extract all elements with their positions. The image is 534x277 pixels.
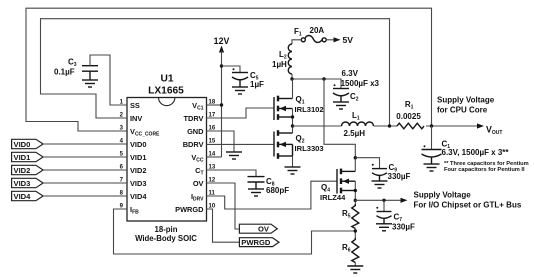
svg-text:IFB: IFB: [130, 205, 139, 216]
svg-text:330µF: 330µF: [388, 172, 411, 181]
svg-text:CT: CT: [195, 166, 203, 177]
svg-text:Wide-Body SOIC: Wide-Body SOIC: [135, 234, 197, 243]
node: R5/R6 junction to pin 9: [354, 229, 357, 232]
svg-text:680pF: 680pF: [266, 186, 289, 195]
wire: pin 14 VCC stub to 12V rail: [207, 156, 222, 158]
node: left of R1 / inner loop: [388, 124, 391, 127]
VID2 input flag: [12, 165, 43, 175]
svg-text:Q2: Q2: [296, 134, 305, 145]
svg-text:R1: R1: [405, 100, 414, 111]
capacitor C8 680pF: [248, 177, 290, 195]
node: Q1 source tie: [291, 115, 294, 118]
wire: pin 18 VC1 stub: [207, 104, 222, 106]
transistor Q2 IRL3303: [274, 130, 324, 159]
wire: Q1 drain up to node A: [292, 79, 294, 99]
svg-text:VID0: VID0: [130, 140, 146, 149]
svg-text:VID1: VID1: [14, 153, 32, 162]
svg-text:Q4: Q4: [321, 183, 330, 194]
wire: pin 9 IFB feedback from R5/R6 divider: [114, 209, 356, 254]
ground (C1): [424, 164, 440, 171]
svg-text:INV: INV: [130, 114, 142, 123]
ground (Q2 source): [285, 167, 301, 174]
svg-text:VCC: VCC: [191, 153, 204, 164]
VID3 input flag: [12, 178, 43, 188]
node: C5 tap on 12V rail: [220, 64, 223, 67]
wire: R6 to ground: [354, 263, 356, 267]
svg-text:6.3V: 6.3V: [342, 69, 359, 78]
svg-text:for CPU Core: for CPU Core: [437, 106, 488, 115]
transistor Q4 IRLZ44: [320, 169, 355, 202]
wire: pin 13 CT to C8: [207, 170, 257, 177]
wire: Q4 body/source down to R5/R6: [354, 181, 356, 204]
svg-text:12V: 12V: [214, 36, 230, 46]
svg-text:R5: R5: [342, 209, 351, 220]
wire: fuse to L2: [292, 40, 301, 44]
wire: R1 to VOUT arrow: [426, 125, 478, 127]
wire: C7 tap down: [383, 200, 385, 211]
wire: pin 11 IDRV to Q4 gate: [207, 181, 338, 209]
I/O supply arrow label: [401, 191, 522, 210]
ground (C7): [376, 224, 392, 231]
ground (C2): [333, 102, 349, 109]
node: C7 tap: [382, 199, 385, 202]
wire: outer feedback loop VOUT to pin 3 VCC_CORE: [26, 8, 432, 131]
resistor R6: [342, 238, 359, 263]
svg-text:VID2: VID2: [14, 166, 31, 175]
capacitor C5 1uF: [232, 68, 264, 89]
wire: pin 16 GND to ground: [207, 131, 235, 152]
wire: 12V rail to C5: [222, 66, 241, 73]
svg-text:U1: U1: [160, 74, 173, 85]
wire: pin 15 BDRV to Q2 gate: [207, 143, 275, 145]
wire: L1 to R1: [374, 125, 398, 127]
capacitor C7 330uF: [376, 207, 415, 232]
svg-text:2.5µH: 2.5µH: [344, 129, 366, 138]
wire: to C9: [355, 158, 379, 169]
node: I/O supply tap: [354, 199, 357, 202]
svg-text:VC1: VC1: [192, 101, 204, 112]
svg-text:PWRGD: PWRGD: [241, 238, 271, 247]
wire: switch node to L1: [293, 125, 342, 127]
svg-text:VID1: VID1: [130, 153, 146, 162]
wire: pin 17 TDRV to Q1 gate: [207, 108, 275, 118]
wire: I/O supply arrow line: [355, 199, 401, 201]
U1 left pin numbers 1-9: [120, 100, 124, 210]
svg-text:330µF: 330µF: [392, 223, 415, 232]
svg-text:VID4: VID4: [14, 192, 32, 201]
wire: VID4 to pin 8: [43, 195, 127, 197]
svg-text:C2: C2: [350, 92, 359, 103]
ground (C3): [82, 71, 98, 87]
VID1 input flag: [12, 152, 43, 162]
inductor L1 2.5uH: [342, 111, 374, 138]
node: pin18 on 12V rail: [220, 103, 223, 106]
svg-text:Supply Voltage: Supply Voltage: [414, 191, 472, 200]
fuse F1 20A: [294, 26, 326, 42]
transistor Q1 IRL3102: [274, 95, 324, 120]
svg-text:VID3: VID3: [130, 179, 146, 188]
svg-text:0.1µF: 0.1µF: [54, 68, 75, 77]
wire: VID0 to pin 4: [43, 143, 127, 145]
wire: fuse to 5V arrow: [326, 39, 334, 41]
wire: VID3 to pin 7: [43, 182, 127, 184]
VOUT arrow label: [437, 96, 502, 136]
node: L2 / Q1 drain junction: [290, 77, 293, 80]
node: branch to Q4: [322, 77, 325, 80]
svg-text:VID0: VID0: [14, 140, 31, 149]
wire: VOUT node down to C1: [431, 126, 433, 150]
svg-text:18-pin: 18-pin: [155, 225, 178, 234]
U1 right pin numbers 18-10: [209, 100, 216, 210]
VID0 input flag: [12, 139, 43, 149]
svg-text:VID4: VID4: [130, 192, 147, 201]
wire: Q2 source to ground: [292, 156, 294, 167]
svg-text:5V: 5V: [343, 35, 354, 45]
OV output flag: [239, 224, 277, 233]
node: switch node: [291, 124, 294, 127]
inductor L2 1uH: [272, 44, 292, 74]
resistor R5: [342, 204, 359, 229]
capacitor C3 0.1uF: [54, 58, 98, 77]
svg-text:R6: R6: [342, 243, 351, 254]
svg-text:20A: 20A: [310, 26, 325, 35]
ground (C9): [372, 181, 388, 188]
svg-text:GND: GND: [187, 127, 204, 136]
svg-text:IRL3102: IRL3102: [295, 105, 324, 114]
svg-text:15: 15: [209, 139, 216, 145]
PWRGD output flag: [239, 238, 279, 248]
capacitor C9 330uF: [372, 163, 411, 181]
U1 left pin names: [130, 101, 160, 216]
wire: pin 10 PWRGD to PWRGD flag: [207, 209, 240, 242]
svg-text:C7: C7: [394, 213, 403, 224]
svg-text:1µH: 1µH: [272, 60, 287, 69]
svg-text:OV: OV: [193, 179, 204, 188]
ground (R6): [347, 266, 363, 273]
svg-text:Supply Voltage: Supply Voltage: [437, 96, 495, 105]
svg-text:VCC_CORE: VCC_CORE: [130, 127, 160, 138]
svg-text:IDRV: IDRV: [191, 192, 204, 203]
wire: R5 to R6: [354, 229, 356, 239]
svg-text:0.0025: 0.0025: [396, 112, 421, 121]
wire: VID2 to pin 6: [43, 169, 127, 171]
ground (C5): [232, 87, 248, 94]
wire: inner feedback loop (left of R1) to pin 2 INV: [41, 19, 390, 126]
capacitor C1: [422, 140, 529, 173]
wire: VID1 to pin 5: [43, 156, 127, 158]
svg-text:C3: C3: [68, 58, 77, 69]
wire: C3 to pin 1 SS: [90, 55, 127, 105]
5V label arrow: [334, 35, 354, 45]
svg-text:VID3: VID3: [14, 179, 31, 188]
svg-text:LX1665: LX1665: [148, 86, 184, 97]
wire: pin 12 OV to OV flag: [207, 183, 240, 229]
svg-text:Four capacitors for Pentium II: Four capacitors for Pentium II: [444, 167, 525, 173]
wire: node A branch down to Q4 drain: [324, 79, 355, 171]
node: Q4 source tie: [354, 189, 357, 192]
svg-text:For I/O Chipset or GTL+ Bus: For I/O Chipset or GTL+ Bus: [414, 201, 522, 210]
resistor R1 0.0025: [396, 100, 424, 129]
ground (pin 16): [226, 152, 242, 159]
svg-text:IRLZ44: IRLZ44: [320, 193, 346, 202]
svg-text:L1: L1: [352, 111, 360, 122]
node: C9 tap: [354, 156, 357, 159]
svg-text:BDRV: BDRV: [183, 140, 204, 149]
VID4 input flag: [12, 191, 43, 201]
svg-text:SS: SS: [130, 101, 140, 110]
svg-text:1µF: 1µF: [250, 80, 264, 89]
svg-text:1500µF x3: 1500µF x3: [341, 79, 380, 88]
svg-text:VID2: VID2: [130, 166, 146, 175]
node: VOUT / outer loop / C1: [430, 124, 433, 127]
wire: Q1 body/source to switch node to Q2 drain: [292, 109, 294, 134]
svg-text:OV: OV: [258, 225, 270, 234]
svg-text:L2: L2: [279, 50, 287, 61]
svg-text:6.3V, 1500µF x 3**: 6.3V, 1500µF x 3**: [442, 148, 510, 157]
svg-text:F1: F1: [294, 27, 302, 38]
svg-text:Q1: Q1: [296, 95, 305, 106]
svg-text:IRL3303: IRL3303: [295, 144, 324, 153]
12V supply arrow: [214, 36, 230, 157]
capacitor C2 1500uF x3: [333, 69, 380, 103]
U1 right pin names: [175, 101, 204, 214]
IC U1 LX1665 body: [127, 74, 207, 244]
svg-text:VOUT: VOUT: [486, 124, 502, 136]
wire: node A horizontal (L2 out to C2): [292, 74, 341, 89]
svg-text:TDRV: TDRV: [184, 114, 204, 123]
svg-text:PWRGD: PWRGD: [175, 205, 204, 214]
ground (C8): [248, 189, 264, 196]
